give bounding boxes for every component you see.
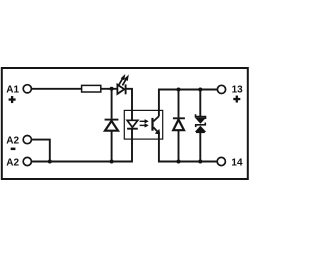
TVS suppressor lower triangle [196, 126, 206, 131]
terminal 13 [217, 85, 225, 93]
opto light arrow 1 [140, 120, 149, 124]
opto light arrow 2 [140, 124, 149, 128]
node J6 junction dot [177, 160, 181, 164]
optocoupler LED cathode bar [127, 128, 138, 130]
wire TVS to bottom rail [199, 132, 201, 161]
terminal A2 (lower) [23, 157, 31, 165]
LED indicator (triangle) [117, 85, 124, 94]
label + (input polarity) [9, 96, 16, 103]
wire D1 to bottom rail [111, 131, 113, 162]
diode D2 freewheel, cathode bar [173, 117, 185, 119]
node J3 junction dot [48, 160, 52, 164]
svg-text:13: 13 [232, 85, 244, 96]
node J1 junction dot [110, 87, 114, 91]
LED emission arrow 1 [119, 75, 125, 85]
wire LED to corner, down to optocoupler LED [127, 89, 133, 121]
optocoupler LED triangle [127, 120, 138, 127]
svg-text:A2: A2 [6, 136, 19, 147]
node J7 junction dot [198, 160, 202, 164]
TVS suppressor middle zener bar [196, 123, 206, 128]
diode D2 freewheel, triangle [173, 120, 184, 131]
wire resistor to node J1 [101, 88, 118, 90]
terminal A1 [23, 85, 31, 93]
wire A1 to resistor [31, 88, 81, 90]
TVS suppressor top zener bar [196, 114, 206, 119]
node J2 junction dot [110, 160, 114, 164]
svg-text:14: 14 [231, 158, 243, 169]
TVS suppressor bottom bar [196, 131, 205, 133]
outer border frame of module [2, 68, 248, 179]
LED emission arrow 2 [122, 76, 128, 86]
label + (output polarity) [233, 96, 240, 103]
optocoupler U1 box [124, 110, 162, 139]
phototransistor emitter line with arrow [153, 127, 159, 134]
diode D1 protection, triangle [105, 121, 118, 131]
label - (input polarity) [11, 148, 16, 151]
node J4 junction dot [177, 88, 181, 92]
wire A2 upper to vertical link [31, 140, 49, 162]
LED indicator cathode bar [125, 84, 127, 94]
resistor R1 [82, 85, 101, 92]
TVS suppressor upper triangle [196, 118, 206, 123]
wire node J1 down to protection diode [111, 89, 113, 119]
wire node J5 down to TVS [199, 90, 201, 117]
svg-text:A2: A2 [6, 157, 19, 168]
terminal 14 [217, 157, 225, 165]
wire A2 lower bottom rail to opto LED cathode [31, 129, 132, 162]
terminal A2 (upper) [23, 136, 31, 144]
diode D1 protection, cathode bar [105, 119, 119, 121]
wire emitter down and bottom rail to 14 [159, 133, 217, 161]
wire collector up and top rail to 13 [159, 90, 217, 117]
wire node J4 down to diode D2 [178, 90, 180, 118]
wire D2 to bottom rail [178, 130, 180, 161]
phototransistor Q1 base bar [151, 118, 153, 131]
node J5 junction dot [198, 88, 202, 92]
svg-text:A1: A1 [6, 85, 19, 96]
phototransistor collector line [153, 116, 159, 121]
